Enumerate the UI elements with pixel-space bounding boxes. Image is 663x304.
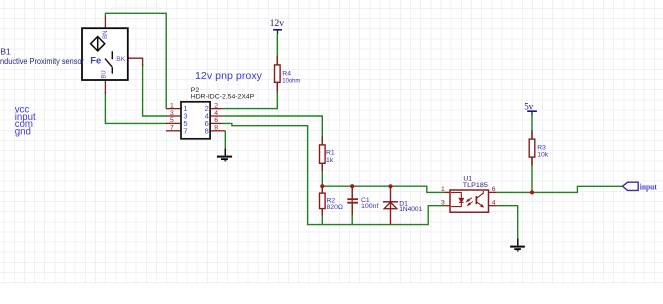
capacitor C1 (347, 186, 358, 215)
svg-text:R1: R1 (326, 150, 335, 157)
wire net P2 pin4 through R1 to bus and U1 pin1 (223, 116, 445, 192)
wire net BK sensor right to P2 pin3 (143, 64, 167, 116)
svg-text:3: 3 (441, 200, 445, 207)
diode D1 (383, 186, 398, 224)
svg-text:5: 5 (170, 117, 174, 124)
svg-text:gnd: gnd (15, 127, 31, 138)
sensor B1 body (82, 28, 128, 80)
svg-text:820Ω: 820Ω (327, 204, 344, 211)
wire 5v through R3 to junction (531, 115, 533, 192)
connector P2 outside pin numbers left (170, 102, 174, 131)
junction dot C1 (350, 184, 354, 188)
svg-text:8: 8 (205, 126, 209, 135)
svg-text:7: 7 (170, 125, 174, 132)
svg-text:6: 6 (492, 186, 496, 193)
sensor B1 diamond symbol (91, 37, 105, 51)
junction dot R1/R2/bus (320, 184, 324, 188)
svg-text:5v: 5v (524, 102, 534, 112)
wire R2 branch (321, 186, 323, 224)
junction dot D1 (388, 184, 392, 188)
svg-text:TLP185: TLP185 (463, 182, 488, 189)
resistor R2 (320, 186, 326, 215)
svg-text:Inductive Proximity sensor: Inductive Proximity sensor (0, 57, 84, 66)
svg-text:1: 1 (170, 102, 174, 109)
power flag 5v (524, 102, 537, 116)
resistor R3 (529, 131, 535, 166)
svg-text:1N4001: 1N4001 (399, 206, 422, 213)
svg-text:4: 4 (492, 200, 496, 207)
svg-text:12v: 12v (270, 18, 285, 28)
svg-text:3: 3 (170, 110, 174, 117)
resistor R4 (275, 56, 281, 92)
ground below U1 (510, 239, 525, 252)
optocoupler U1 body (450, 190, 489, 212)
svg-text:1: 1 (441, 186, 445, 193)
svg-text:7: 7 (183, 126, 187, 135)
resistor R1 (320, 136, 326, 171)
junction dot R3/U1 pin6 (530, 190, 534, 194)
svg-text:R4: R4 (282, 70, 291, 77)
optocoupler U1 LED (451, 192, 464, 206)
svg-text:8: 8 (214, 125, 218, 132)
sensor B1 switch symbol (105, 51, 112, 73)
connector P2 outside pin numbers right (214, 102, 218, 131)
wire net P2 pin6 bottom loop to U1 pin3 (223, 123, 445, 224)
svg-text:Fe: Fe (90, 55, 101, 66)
optocoupler U1 phototransistor (476, 191, 483, 207)
optocoupler U1 pin numbers (441, 186, 496, 206)
svg-text:R3: R3 (537, 145, 546, 152)
svg-text:2: 2 (214, 102, 218, 109)
connector P2 left pin stubs (166, 109, 181, 131)
connector P2 inside pin numbers left (183, 104, 187, 135)
sensor B1 pin stub BK (128, 58, 143, 66)
svg-text:10ohm: 10ohm (282, 78, 300, 85)
sensor B1 pin stub bottom (104, 80, 106, 94)
svg-text:BK: BK (116, 56, 126, 63)
optocoupler U1 light arrows (467, 198, 473, 206)
wire net 12v to R4 to P2 pin2 (223, 34, 278, 109)
ground below P2 (217, 149, 232, 162)
wire net BN sensor top to P2 pin1 (105, 13, 166, 108)
svg-text:BN: BN (103, 31, 109, 39)
svg-text:12v pnp proxy: 12v pnp proxy (195, 70, 263, 82)
input port tag (623, 182, 658, 191)
wire net U1 pin4 to ground (497, 206, 518, 239)
svg-text:input: input (640, 182, 657, 191)
wire net BU sensor bottom to P2 pin5 (105, 92, 166, 123)
svg-text:10k: 10k (537, 152, 549, 159)
connector P2 inside pin numbers right (205, 104, 209, 135)
svg-text:1k: 1k (326, 157, 334, 164)
wire C1 branch (351, 186, 353, 224)
svg-text:100nf: 100nf (361, 203, 379, 210)
svg-text:HDR-IDC-2.54-2X4P: HDR-IDC-2.54-2X4P (191, 93, 255, 100)
net labels vcc input com gnd (15, 104, 36, 137)
svg-text:4: 4 (214, 110, 218, 117)
sensor B1 pin stub top (104, 17, 106, 29)
connector P2 right pin stubs (210, 109, 225, 131)
connector P2 body (181, 102, 210, 139)
wire net U1 pin6 to R3 and input port (497, 186, 623, 192)
wire net P2 pin8 to ground (224, 131, 226, 149)
svg-text:6: 6 (214, 117, 218, 124)
svg-text:BU: BU (101, 70, 107, 78)
svg-text:B1: B1 (1, 48, 11, 57)
power flag 12v (270, 18, 285, 34)
optocoupler U1 pin stubs (445, 192, 497, 205)
